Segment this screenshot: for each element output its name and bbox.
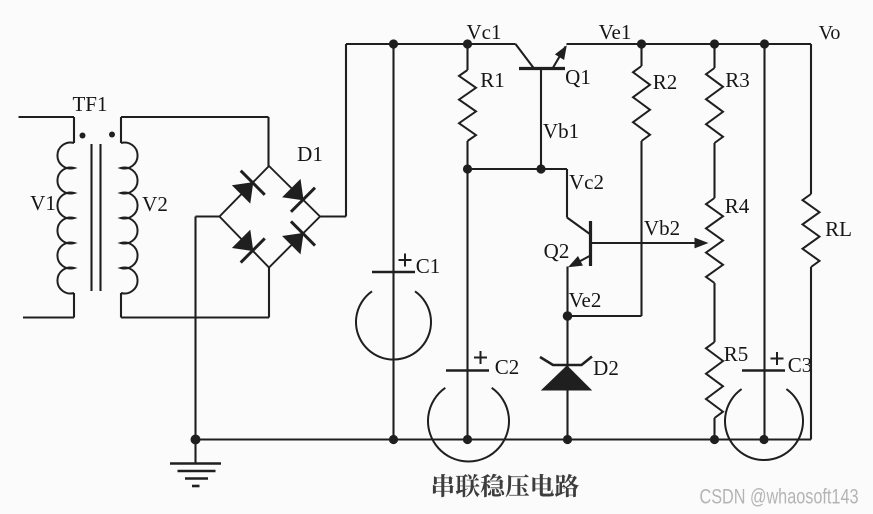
svg-text:RL: RL: [825, 217, 852, 241]
resistor R2: [640, 44, 642, 66]
capacitor C3 plate: [742, 369, 785, 371]
svg-text:V2: V2: [142, 192, 168, 216]
node Vb1 left: [463, 164, 472, 173]
wire Ve2 to R2: [568, 315, 642, 317]
wire C3 branch: [763, 44, 765, 440]
svg-text:C3: C3: [788, 353, 813, 377]
transistor Q1 emitter arrow: [555, 45, 567, 60]
resistor RL: [810, 44, 812, 194]
wire R3-R4: [713, 143, 715, 198]
transistor Q1 emitter: [553, 47, 566, 69]
transformer TF1 secondary winding: [121, 143, 138, 294]
wire secondary bottom to bridge: [120, 293, 122, 318]
wire bridge left vertex to ground rail: [196, 215, 220, 217]
capacitor C3 plus: [771, 358, 784, 360]
bridge diode top-left: [229, 171, 264, 206]
svg-text:R2: R2: [653, 70, 678, 94]
svg-text:V1: V1: [30, 191, 56, 215]
wire R5 bottom: [713, 418, 715, 440]
svg-text:Vb2: Vb2: [644, 216, 680, 240]
node C3 bottom: [759, 435, 768, 444]
capacitor C1 body: [356, 291, 431, 359]
node C1 bottom: [389, 435, 398, 444]
zener D2 cathode bar: [540, 357, 592, 366]
bottom rail: [196, 438, 812, 440]
node C3 top: [760, 39, 769, 48]
transistor Q2 emitter arrow: [568, 256, 583, 267]
bridge diode bottom-right: [280, 221, 315, 256]
transformer polarity dot right: [109, 132, 115, 138]
wire bridge right vertex to top rail: [320, 215, 346, 217]
wire Q2 emitter to Ve2: [566, 267, 568, 317]
transistor Q2 base lead Vb2: [591, 242, 699, 244]
transistor Q1 collector: [516, 44, 535, 69]
capacitor C2 plus: [474, 357, 487, 359]
svg-text:Vc2: Vc2: [569, 170, 604, 194]
capacitor C2 body: [428, 388, 509, 462]
svg-text:Q2: Q2: [544, 239, 570, 263]
svg-text:D1: D1: [297, 142, 323, 166]
caption 串联稳压电路: [433, 474, 579, 497]
potentiometer wiper arrow: [695, 238, 709, 249]
node R3 top: [710, 39, 719, 48]
svg-text:Vb1: Vb1: [543, 119, 579, 143]
transformer TF1 primary winding: [57, 143, 74, 294]
transformer polarity dot left: [80, 133, 86, 139]
transistor Q2 emitter: [571, 256, 591, 267]
transistor Q2 base bar: [589, 221, 592, 266]
transistor Q2 collector: [567, 218, 591, 235]
top rail left segment: [346, 43, 516, 45]
wire C1 branch: [392, 44, 394, 440]
transistor Q1 base bar: [519, 67, 565, 70]
svg-text:Q1: Q1: [565, 65, 591, 89]
svg-text:R3: R3: [725, 68, 750, 92]
resistor R1: [466, 44, 468, 70]
svg-text:Ve1: Ve1: [599, 20, 632, 44]
wire R4-R5: [713, 283, 715, 342]
bridge diode top-right: [280, 176, 315, 211]
capacitor C1 plate: [372, 271, 415, 273]
node Ve2: [563, 311, 573, 321]
wire Vb1 to Q2 collector: [468, 168, 568, 170]
ground symbol: [194, 440, 196, 464]
svg-text:TF1: TF1: [72, 92, 107, 116]
bridge diode bottom-left: [229, 227, 264, 262]
resistor R4: [706, 198, 723, 283]
svg-text:R5: R5: [724, 342, 749, 366]
top rail right segment: [567, 43, 812, 45]
wire secondary top to bridge: [120, 117, 122, 143]
svg-text:CSDN @whaosoft143: CSDN @whaosoft143: [700, 486, 859, 509]
transformer TF1 primary bottom lead: [73, 293, 75, 318]
transformer TF1 primary top lead: [19, 116, 75, 118]
node Vc1: [463, 39, 472, 48]
resistor R3: [713, 44, 715, 68]
svg-text:Ve2: Ve2: [569, 288, 602, 312]
svg-text:R1: R1: [480, 68, 505, 92]
node Vb1 base: [536, 164, 545, 173]
wire C2 branch: [466, 169, 468, 440]
node Ve1-R2: [637, 39, 646, 48]
transistor Q1 base lead: [540, 69, 542, 170]
node ground: [191, 435, 201, 445]
wire D2 branch: [566, 316, 568, 440]
resistor R5: [706, 342, 723, 418]
capacitor C2 plate: [446, 369, 489, 371]
transformer TF1 core: [90, 144, 92, 291]
node top C1: [389, 39, 398, 48]
node R5 bottom: [710, 435, 719, 444]
svg-text:C1: C1: [416, 254, 441, 278]
node C2 bottom: [463, 435, 472, 444]
svg-text:D2: D2: [593, 356, 619, 380]
zener D2 triangle: [542, 366, 591, 390]
bridge D1 diamond: [220, 166, 321, 268]
capacitor C3 body: [725, 389, 803, 460]
svg-text:R4: R4: [725, 194, 750, 218]
capacitor C1 plus: [399, 259, 412, 261]
node D2 bottom: [563, 435, 572, 444]
svg-text:C2: C2: [495, 355, 520, 379]
svg-text:Vo: Vo: [819, 22, 841, 44]
svg-text:Vc1: Vc1: [467, 20, 502, 44]
